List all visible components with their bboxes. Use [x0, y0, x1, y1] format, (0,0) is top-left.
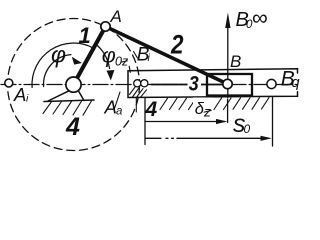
svg-text:1: 1	[79, 23, 91, 48]
svg-text:∞: ∞	[252, 5, 268, 30]
svg-text:φ: φ	[51, 42, 66, 68]
svg-text:2: 2	[170, 29, 183, 59]
svg-text:a: a	[116, 106, 122, 118]
svg-text:A: A	[104, 97, 117, 118]
svg-text:4: 4	[145, 98, 158, 121]
svg-text:0: 0	[244, 122, 251, 136]
svg-text:A: A	[13, 84, 26, 105]
svg-text:φ: φ	[102, 44, 116, 68]
svg-text:q: q	[292, 75, 300, 91]
svg-text:B: B	[230, 52, 241, 71]
svg-text:3: 3	[189, 72, 199, 95]
svg-text:4: 4	[65, 113, 80, 141]
svg-text:A: A	[110, 7, 122, 26]
